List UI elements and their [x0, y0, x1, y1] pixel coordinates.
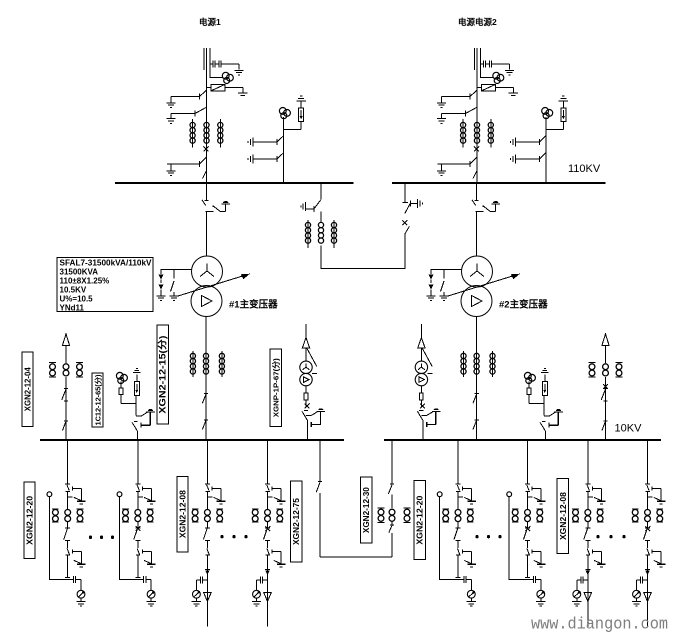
line arrow 10kV line right — [602, 334, 609, 363]
feeder earthing switch 2 feeder 08r-1 — [592, 550, 601, 564]
meter ground feeder 20-1 — [76, 598, 85, 606]
feeder earthing switch feeder 75-1 — [272, 487, 281, 501]
feeder earthing switch feeder 08r-2 — [652, 487, 661, 501]
feeder CT row feeder 08-1 — [192, 509, 223, 522]
transformer transformer T1 HV winding — [192, 256, 223, 287]
stub wire station transformer 1 — [305, 324, 307, 340]
feeder disconnect feeder 08-1 — [205, 485, 212, 510]
antenna ground source 2 — [509, 93, 518, 95]
bus tie 10kV bottom wire — [320, 556, 392, 558]
disconnect 1 LV T1 — [202, 394, 208, 404]
x mark station transformer 2 — [420, 404, 425, 409]
meter ground feeder 20-2 — [146, 598, 155, 606]
x junction mark source 1 — [204, 146, 209, 151]
svg-text:XGN2-12-04: XGN2-12-04 — [23, 367, 32, 412]
meter ground feeder 20r-1 — [467, 598, 476, 606]
label XGN2-12-04 — [22, 352, 33, 427]
feeder arrow feeder 08-1 — [204, 593, 211, 602]
neutral switch ground transformer T2 — [439, 296, 448, 301]
surge arrester 10kV PT I — [134, 382, 139, 396]
110kV bus section II — [392, 182, 606, 184]
svg-text:电源1: 电源1 — [199, 17, 221, 27]
capacitor feeder 75-1 — [257, 577, 268, 591]
PT fuse 10kV PT I — [119, 382, 123, 404]
bus tie 10kV left leg — [316, 440, 322, 557]
x mark feeder 20-2 — [136, 526, 141, 531]
wire below disconnect transformer T1 — [206, 211, 208, 256]
svg-text:XGN2-12-08: XGN2-12-08 — [178, 490, 187, 539]
earthing switch transformer T2 — [483, 204, 496, 212]
capacitor feeder 20-2 — [144, 576, 152, 590]
feeder disconnect feeder 08r-1 — [586, 485, 593, 510]
ellipsis dots group 1 — [89, 536, 114, 539]
feeder long tail feeder 08-1 — [206, 561, 208, 627]
feeder disconnect feeder 75-1 — [266, 485, 273, 510]
feeder switch 2 feeder 20-2 — [136, 548, 140, 561]
CT row 10kV line right — [589, 363, 623, 377]
feeder earth ground 2 feeder 08r-1 — [597, 564, 606, 567]
label XGN2-12-20 left — [24, 482, 35, 559]
feeder drop wire feeder 08r-2 — [645, 440, 650, 484]
earth bump station transformer 1 — [316, 408, 325, 411]
wire below disconnect transformer T2 — [476, 211, 478, 256]
feeder earthing switch feeder 20r-1 — [463, 487, 472, 501]
110kV bus section I — [115, 182, 354, 184]
earth stem 10kV PT I — [141, 412, 151, 428]
label XGN2-12-08 right — [557, 479, 568, 554]
label XGN2-12-20 right — [414, 481, 425, 560]
wire main column source 1 — [206, 98, 208, 183]
feeder earthing switch feeder 08-1 — [212, 487, 221, 501]
earth b 110kV PT 2 — [511, 154, 516, 163]
feeder earthing switch 2 feeder 20r-1 — [463, 550, 472, 564]
PT cluster source 1 — [210, 72, 233, 83]
feeder arrow feeder 08r-1 — [584, 593, 591, 602]
wave trap source 1 — [207, 84, 243, 93]
earth stem station transformer 2 — [427, 411, 437, 427]
disconnect switch 2 source 1 — [171, 107, 207, 116]
breaker to bus station transformer 2 — [418, 411, 424, 440]
wire LV drop T2 — [476, 317, 478, 441]
x junction mark source 2 — [474, 146, 479, 151]
feeder earthing switch 2 feeder 20-2 — [142, 550, 151, 564]
feeder drop wire feeder 08-1 — [205, 440, 210, 484]
capacitor feeder 20-1 — [74, 576, 82, 590]
label 1C12-12-65 — [92, 373, 103, 427]
feeder switch 2 feeder 08-1 — [205, 548, 209, 561]
wire bus drop transformer T2 — [474, 183, 478, 200]
neutral wire transformer T2 — [431, 270, 462, 274]
metering device feeder 20-2 — [147, 590, 155, 598]
disconnect 1 10kV line right — [601, 389, 607, 401]
cable wire feeder 20-2 — [120, 497, 144, 580]
earthing switch transformer T1 — [213, 204, 226, 212]
tap changer arrow transformer T1 — [178, 274, 250, 296]
incoming line source 2 — [475, 48, 481, 98]
feeder CT row feeder 20r-1 — [442, 509, 473, 522]
svg-text:XGNP-1P-67(分): XGNP-1P-67(分) — [271, 358, 281, 418]
svg-text:1C12-12-65(分): 1C12-12-65(分) — [93, 375, 102, 426]
feeder breaker feeder 08-1 — [203, 522, 210, 548]
arrester ground 110kV PT 1 — [296, 96, 305, 101]
svg-text:#1主变压器: #1主变压器 — [229, 299, 278, 311]
feeder disconnect feeder 08r-2 — [646, 485, 653, 510]
earthing switch ground 1 source 1 — [166, 97, 175, 108]
watermark — [531, 615, 668, 634]
feeder switch 2 feeder 20r-1 — [456, 548, 460, 561]
coupling capacitor source 1 — [210, 61, 239, 70]
ellipsis dots group 2 — [220, 535, 247, 538]
label XGN2-12-30 — [360, 477, 371, 543]
feeder CT row feeder 08r-2 — [632, 509, 663, 522]
metering device feeder 08r-2 — [633, 590, 641, 598]
metering device feeder 08r-1 — [573, 590, 581, 598]
earthing switch ground 3 source 2 — [437, 164, 446, 176]
svg-text:XGN2-12-30: XGN2-12-30 — [362, 487, 371, 534]
x mark feeder 75-1 — [265, 526, 270, 531]
wire pt link 10kV PT II — [529, 395, 544, 415]
svg-text:SFAL7-31500kVA/110kV: SFAL7-31500kVA/110kV — [60, 259, 153, 268]
PT cluster 110kV PT 1 — [279, 108, 290, 119]
feeder earthing switch 2 feeder 20-1 — [72, 550, 81, 564]
feeder breaker feeder 08r-1 — [584, 522, 591, 548]
feeder drop wire feeder 20-1 — [65, 440, 70, 484]
bus tie x mark — [402, 220, 407, 225]
current transformer stack source 1 — [190, 119, 223, 148]
disconnect switch 3 source 2 — [438, 157, 478, 178]
cable head feeder 20-2 — [117, 492, 122, 497]
disconnect 1 LV T2 — [473, 394, 479, 404]
feeder long tail feeder 08r-2 — [647, 561, 649, 627]
neutral arrester ground transformer T2 — [426, 296, 435, 301]
x mark feeder 08r-2 — [645, 526, 650, 531]
label 10KV — [615, 423, 643, 435]
fuse station transformer 2 — [420, 386, 424, 407]
feeder earth ground feeder 08r-1 — [597, 501, 606, 504]
label source 1 — [199, 17, 221, 27]
cable wire feeder 20r-2 — [509, 497, 533, 580]
disconnect switch 2 source 2 — [442, 107, 478, 116]
feeder earthing switch feeder 20-1 — [72, 487, 81, 501]
disconnect to bus 10kV PT I — [132, 422, 138, 440]
earth bump 10kV PT I — [146, 409, 155, 412]
incoming line source 1 — [204, 48, 210, 98]
earth bump station transformer 2 — [432, 408, 441, 411]
disconnect switch a 110kV PT 2 — [515, 136, 546, 145]
feeder switch 2 feeder 08r-2 — [646, 548, 650, 561]
feeder arrow feeder 75-1 — [264, 593, 271, 602]
bus tie earth left — [301, 202, 306, 211]
feeder earthing switch feeder 08r-1 — [592, 487, 601, 501]
metering device feeder 20r-2 — [537, 590, 545, 598]
feeder drop wire feeder 75-1 — [265, 440, 270, 484]
10kV bus section I — [40, 439, 344, 441]
capacitor feeder 20r-1 — [464, 576, 472, 590]
coupling capacitor source 2 — [481, 61, 510, 70]
label 110KV — [568, 163, 601, 175]
wire pt branch 110kV PT 1 — [284, 117, 302, 183]
stub wire station transformer 2 — [420, 324, 422, 340]
capacitor feeder 08r-1 — [577, 577, 588, 591]
feeder CT row feeder 20-2 — [122, 509, 153, 522]
neutral arrester arrows transformer T1 — [159, 275, 164, 296]
earthing switch station transformer 1 — [306, 411, 325, 415]
arrester top ground 10kV PT II — [541, 369, 549, 382]
disconnect 1 10kV line 04 — [62, 389, 68, 401]
label transformer T2 — [499, 299, 548, 311]
bus tie earth right — [418, 199, 423, 208]
capacitor feeder 08-1 — [196, 577, 207, 591]
feeder earth ground feeder 20-2 — [147, 501, 156, 504]
transformer transformer T1 LV winding — [191, 286, 222, 317]
wire main column source 2 — [476, 98, 478, 183]
disconnect 2 LV T1 — [202, 420, 208, 430]
feeder disconnect feeder 20-2 — [136, 485, 143, 510]
feeder disconnect feeder 20r-1 — [456, 485, 463, 510]
disconnect 2 10kV line right — [602, 421, 608, 431]
wire bus drop transformer T1 — [204, 183, 208, 200]
fuse blade station transformer 1 — [307, 349, 317, 367]
feeder breaker feeder 75-1 — [264, 522, 271, 548]
bus tie bottom wire — [321, 234, 405, 268]
earth b 110kV PT 1 — [248, 154, 253, 163]
ground of coupling capacitor source 1 — [234, 70, 243, 75]
feeder long tail feeder 08r-1 — [587, 561, 589, 627]
PT cluster 10kV PT II — [524, 372, 535, 383]
cable head feeder 20-1 — [47, 492, 52, 497]
feeder breaker feeder 20-2 — [134, 522, 141, 548]
feeder CT row feeder 75-1 — [252, 509, 283, 522]
feeder tail feeder 20r-1 — [456, 561, 461, 577]
bus tie 10kV disconnect upper — [388, 484, 394, 494]
bus tie 10kV disconnect lower — [389, 525, 394, 533]
feeder earth ground 2 feeder 20r-2 — [537, 564, 546, 567]
feeder breaker feeder 20-1 — [64, 522, 70, 548]
CT stack LV T1 — [190, 351, 224, 377]
meter ground feeder 08-1 — [192, 598, 201, 606]
neutral switch transformer T2 — [441, 270, 445, 296]
earthing switch 10kV PT II — [544, 412, 563, 416]
earth terminal transformer T1 — [221, 201, 230, 204]
feeder tail feeder 20-1 — [65, 561, 70, 577]
ellipsis dots group 4 — [596, 535, 625, 538]
bus tie disconnect right lower — [405, 226, 410, 234]
wire 10kV line 04 — [65, 377, 67, 440]
station transformer station transformer 2 — [415, 361, 432, 386]
label XGN2-12-08 left — [177, 476, 188, 551]
metering device feeder 20r-1 — [467, 590, 475, 598]
earth stem 10kV PT II — [549, 412, 559, 428]
svg-text:XGN2-12-20: XGN2-12-20 — [25, 495, 34, 545]
arrester top ground 10kV PT I — [133, 369, 141, 382]
wire 10kV line right — [605, 377, 607, 440]
feeder earthing switch 2 feeder 20r-2 — [532, 550, 541, 564]
breaker to bus station transformer 1 — [302, 411, 308, 440]
feeder switch 2 feeder 75-1 — [266, 548, 270, 561]
capacitor feeder 20r-2 — [533, 576, 541, 590]
feeder breaker feeder 20r-2 — [524, 522, 531, 548]
label transformer T1 — [229, 299, 278, 311]
feeder earthing switch 2 feeder 75-1 — [272, 550, 281, 564]
svg-text:XGN2-12-08: XGN2-12-08 — [559, 491, 568, 540]
feeder breaker feeder 20r-1 — [454, 522, 461, 548]
earthing switch ground 2 source 2 — [437, 114, 446, 124]
feeder earthing switch feeder 20-2 — [142, 487, 151, 501]
feeder tail feeder 20r-2 — [525, 561, 530, 577]
wire pt link 10kV PT I — [121, 395, 136, 415]
svg-text:www.diangon.com: www.diangon.com — [531, 615, 668, 634]
cable wire feeder 20r-1 — [440, 497, 464, 580]
meter ground feeder 08r-1 — [572, 598, 581, 606]
fuse station transformer 1 — [304, 386, 308, 407]
svg-text:XGN2-12-15(分): XGN2-12-15(分) — [157, 336, 168, 414]
svg-text:110±8X1.25%: 110±8X1.25% — [60, 277, 110, 286]
PT fuse 10kV PT II — [527, 382, 531, 404]
svg-text:#2主变压器: #2主变压器 — [499, 299, 548, 311]
tap changer arrow transformer T2 — [448, 274, 520, 296]
label XGNP-1P-67 — [270, 349, 281, 427]
svg-text:电源电源2: 电源电源2 — [458, 17, 497, 27]
surge arrester 110kV PT 2 — [561, 101, 566, 121]
feeder earth ground feeder 20r-2 — [537, 501, 546, 504]
cable wire feeder 20-1 — [49, 497, 73, 580]
feeder earth ground feeder 75-1 — [277, 501, 286, 504]
antenna ground source 1 — [238, 93, 247, 95]
x mark feeder 20r-2 — [525, 526, 530, 531]
wire LV drop T1 — [205, 317, 207, 441]
feeder long tail feeder 75-1 — [267, 561, 269, 627]
earth terminal transformer T2 — [491, 201, 500, 204]
fuse blade station transformer 2 — [422, 349, 432, 367]
station transformer station transformer 1 — [300, 361, 317, 386]
cable head feeder 20r-2 — [507, 492, 512, 497]
disconnect switch a 110kV PT 1 — [253, 136, 284, 145]
feeder arrow feeder 08r-2 — [644, 593, 651, 602]
svg-text:31500KVA: 31500KVA — [60, 268, 99, 277]
feeder CT row feeder 20r-2 — [512, 509, 543, 522]
wave trap source 2 — [477, 84, 513, 93]
capacitor feeder 08r-2 — [637, 577, 648, 591]
feeder earth ground feeder 08r-2 — [657, 501, 666, 504]
bus tie 110kV left leg wire — [320, 183, 322, 223]
disconnect 2 LV T2 — [473, 420, 479, 430]
svg-text:U%=10.5: U%=10.5 — [60, 295, 94, 304]
earthing switch ground 1 source 2 — [437, 97, 446, 108]
feeder drop wire feeder 20r-2 — [525, 440, 530, 484]
svg-text:XGN2-12-20: XGN2-12-20 — [416, 495, 425, 545]
feeder earthing switch feeder 20r-2 — [532, 487, 541, 501]
neutral switch ground transformer T1 — [169, 296, 178, 301]
feeder earth ground 2 feeder 08r-2 — [657, 564, 666, 567]
bus tie 10kV CT row — [378, 508, 411, 522]
disconnect 2 10kV line 04 — [62, 421, 68, 431]
label XGN2-12-75 — [291, 481, 302, 562]
PT cluster 110kV PT 2 — [542, 108, 553, 119]
neutral switch transformer T1 — [171, 270, 175, 296]
feeder breaker feeder 08r-2 — [644, 522, 651, 548]
transformer transformer T2 LV winding — [461, 286, 492, 317]
disconnect switch 1 source 2 — [442, 90, 478, 99]
svg-text:XGN2-12-75: XGN2-12-75 — [292, 497, 301, 545]
svg-text:110KV: 110KV — [568, 163, 601, 175]
svg-text:10KV: 10KV — [615, 423, 643, 435]
earthing switch 10kV PT I — [136, 412, 155, 416]
neutral arrester ground transformer T1 — [156, 296, 165, 301]
feeder drop wire feeder 20r-1 — [456, 440, 461, 484]
disconnect blade transformer T2 — [472, 200, 484, 212]
disconnect to bus 10kV PT II — [540, 422, 546, 440]
line arrow station transformer 2 — [418, 338, 425, 362]
svg-text:YNd11: YNd11 — [60, 304, 85, 313]
arrester ground 110kV PT 2 — [559, 96, 568, 101]
meter ground feeder 75-1 — [252, 598, 261, 606]
PT cluster source 2 — [481, 72, 504, 83]
bus tie disconnect left — [306, 200, 321, 213]
transformer transformer T2 HV winding — [462, 256, 493, 287]
feeder earth ground 2 feeder 20-2 — [147, 564, 156, 567]
cable mark feeder 08-1 — [205, 569, 210, 575]
x mark right line — [603, 384, 608, 389]
feeder CT row feeder 08r-1 — [572, 509, 603, 522]
metering device feeder 20-1 — [77, 590, 85, 598]
feeder disconnect feeder 20-1 — [66, 485, 73, 510]
feeder CT row feeder 20-1 — [52, 509, 83, 522]
10kV bus section II — [384, 439, 661, 441]
feeder disconnect feeder 20r-2 — [526, 485, 533, 510]
metering device feeder 08-1 — [193, 590, 201, 598]
feeder earth ground feeder 20r-1 — [467, 501, 476, 504]
feeder switch 2 feeder 20-1 — [66, 548, 70, 561]
metering device feeder 75-1 — [253, 590, 261, 598]
earth stem station transformer 1 — [311, 411, 321, 427]
surge arrester 110kV PT 1 — [299, 101, 304, 121]
feeder earth ground 2 feeder 20-1 — [77, 564, 86, 567]
disconnect switch 3 source 1 — [167, 157, 207, 178]
earth bump 10kV PT II — [554, 409, 563, 412]
earthing switch ground 3 source 1 — [166, 164, 175, 176]
disconnect switch 1 source 1 — [171, 90, 207, 99]
label XGN2-12-15 — [157, 325, 169, 424]
line arrow station transformer 1 — [302, 338, 309, 362]
feeder earth ground 2 feeder 20r-1 — [467, 564, 476, 567]
ground of coupling capacitor source 2 — [505, 70, 514, 75]
meter ground feeder 20r-2 — [536, 598, 545, 606]
neutral arrester arrows transformer T2 — [429, 275, 434, 296]
bus tie CT stack — [305, 220, 336, 248]
feeder earthing switch 2 feeder 08r-2 — [652, 550, 661, 564]
cable mark feeder 08r-2 — [645, 569, 650, 575]
label source 2 — [458, 17, 497, 27]
cable mark feeder 08r-1 — [585, 569, 590, 575]
meter ground feeder 08r-2 — [632, 598, 641, 606]
bus tie 10kV right leg — [391, 440, 393, 557]
earthing switch station transformer 2 — [421, 411, 440, 415]
feeder earth ground 2 feeder 75-1 — [277, 564, 286, 567]
CT row 10kV line 04 — [49, 363, 83, 377]
earthing switch ground 2 source 1 — [166, 114, 175, 124]
PT cluster 10kV PT I — [116, 372, 127, 383]
earth a 110kV PT 2 — [511, 137, 516, 146]
disconnect switch b 110kV PT 2 — [515, 153, 546, 162]
feeder earth ground feeder 20-1 — [77, 501, 86, 504]
feeder tail feeder 20-2 — [135, 561, 140, 577]
cable mark feeder 75-1 — [265, 569, 270, 575]
svg-text:10.5KV: 10.5KV — [60, 286, 87, 295]
surge arrester 10kV PT II — [542, 382, 547, 396]
feeder drop wire feeder 08r-1 — [585, 440, 590, 484]
earth a 110kV PT 1 — [248, 137, 253, 146]
current transformer stack source 2 — [461, 119, 494, 148]
